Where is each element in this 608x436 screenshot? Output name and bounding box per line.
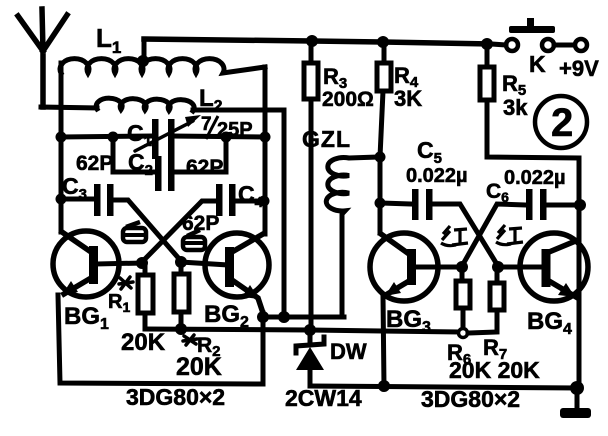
svg-text:20K: 20K (121, 329, 166, 356)
svg-text:2: 2 (551, 101, 573, 145)
wire right rail (BG4 collector/emitter) (577, 158, 582, 388)
resistor R6 (456, 267, 470, 338)
terminal +9V (575, 39, 587, 51)
resistor R5 (480, 44, 578, 158)
label 7/25P (201, 114, 253, 141)
mark flag 2 (183, 230, 205, 250)
svg-text:K: K (529, 51, 546, 77)
node C6 right (574, 199, 586, 211)
wire L1 right end down (263, 67, 268, 137)
wire tank line right (171, 136, 265, 137)
wire BG1 emitter down and box bottom (58, 295, 263, 384)
mark hong 1 (441, 226, 468, 246)
svg-text:20K: 20K (176, 353, 222, 381)
node BG2 base (175, 256, 187, 268)
node switch junction (481, 38, 493, 50)
inductor GZL (326, 157, 379, 317)
resistor R4 (377, 42, 391, 233)
mark hong 2 (496, 225, 523, 245)
svg-text:62P: 62P (186, 156, 223, 179)
svg-text:+9V: +9V (559, 56, 599, 81)
svg-text:0.022µ: 0.022µ (504, 167, 566, 189)
node BG1 base (136, 257, 148, 269)
wire emitter line (263, 315, 344, 320)
node GZL top (375, 152, 386, 163)
node R2 bottom (175, 323, 187, 335)
circled 2 (535, 96, 587, 148)
label *R1 (108, 277, 133, 315)
resistor R7 (468, 267, 504, 333)
node BG3 base (456, 261, 468, 273)
svg-text:DW: DW (330, 339, 367, 364)
node ground junction (570, 381, 584, 395)
capacitor C5 (380, 189, 498, 266)
inductor L1 (60, 59, 265, 73)
wire tank line left (61, 136, 151, 137)
capacitor C1 variable (135, 115, 201, 159)
resistor R1 (138, 263, 153, 329)
wire BG2 collector rail (263, 137, 268, 234)
resistor R3 (304, 41, 318, 330)
zener diode DW (296, 330, 324, 386)
node C4 right (259, 196, 270, 207)
wire C3 to BG2 base (diagonal) (113, 200, 181, 261)
node C2 right (221, 132, 232, 143)
transistor BG2 (181, 233, 269, 310)
switch K (492, 18, 574, 51)
node L2 bottom (278, 311, 290, 323)
svg-text:3DG80×2: 3DG80×2 (421, 386, 520, 412)
wire C2 loop (113, 137, 226, 172)
antenna (18, 9, 67, 107)
resistor R2 (174, 262, 189, 329)
capacitor C3 (94, 184, 114, 216)
ground (560, 388, 591, 418)
wire bottom ground rail (310, 386, 577, 388)
inductor L2 (96, 98, 194, 111)
wire left rail (BG1 collector / L1 left) (59, 63, 64, 232)
node BG2 emitter (257, 311, 269, 323)
transistor BG1 (53, 231, 142, 297)
node tank right (260, 132, 271, 143)
label *R2 (183, 334, 221, 360)
capacitor C2 (155, 156, 175, 191)
wire antenna to L2 (41, 107, 97, 108)
node C2 left (108, 132, 119, 143)
node L1 tap (137, 55, 149, 67)
transistor BG3 (370, 233, 462, 386)
svg-text:20K 20K: 20K 20K (449, 357, 540, 383)
node tank left (56, 132, 67, 143)
wire L1 tap to top rail (142, 39, 147, 62)
wire C4 to BG1 base (diagonal) (142, 201, 219, 262)
wire C4 right lead (235, 199, 265, 204)
transistor BG4 (498, 233, 588, 301)
node BG3 emitter bottom (378, 380, 390, 392)
wire C3 left lead (61, 197, 94, 202)
svg-text:200Ω: 200Ω (322, 88, 374, 111)
svg-text:25P: 25P (217, 119, 253, 141)
svg-text:62P: 62P (76, 152, 113, 175)
capacitor C6 (462, 189, 580, 266)
svg-text:3K: 3K (394, 86, 422, 111)
mark flag 1 (123, 222, 146, 242)
node DW top (304, 324, 316, 336)
node C5 left (375, 198, 386, 209)
svg-text:3k: 3k (503, 95, 528, 120)
wire top +9V rail (144, 39, 489, 44)
node R4 top (377, 36, 389, 48)
wire L2 right to emitter line (193, 110, 284, 317)
svg-text:0.022µ: 0.022µ (406, 165, 468, 187)
svg-text:3DG80×2: 3DG80×2 (126, 384, 225, 410)
capacitor C4 (216, 184, 236, 216)
node BG4 base (492, 261, 504, 273)
node C3 left (56, 194, 67, 205)
node R3 top (306, 35, 318, 47)
svg-text:2CW14: 2CW14 (285, 385, 362, 411)
wire bias bus (145, 329, 458, 332)
